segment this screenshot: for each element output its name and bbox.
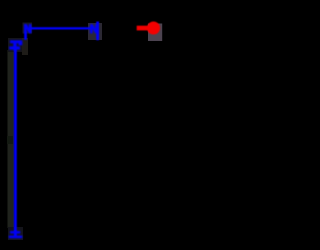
artifact block behind node N1 [23, 23, 33, 34]
node N2 label [90, 24, 98, 33]
wire A: horizontal N1 to N2 [31, 27, 91, 29]
artifact block behind node N3 [8, 38, 22, 52]
node O marker: red disc [147, 22, 160, 35]
wire D: long vertical N3 to N4 [14, 50, 17, 237]
artifact block behind node O [148, 24, 162, 42]
node N4 symbol [9, 231, 22, 238]
artifact block right of node N3 [22, 38, 28, 55]
artifact block behind node N4 [8, 227, 23, 240]
wire E: red horizontal [137, 26, 152, 31]
node N3 symbol [9, 40, 22, 50]
wire C: short vertical below N1 [24, 32, 27, 40]
node N1 label [24, 24, 32, 33]
artifact block behind node N2 [88, 23, 102, 40]
artifact blob mid band [7, 136, 13, 144]
wire B: vertical at N2 right [96, 22, 99, 41]
artifact band left of wire D [8, 50, 15, 228]
